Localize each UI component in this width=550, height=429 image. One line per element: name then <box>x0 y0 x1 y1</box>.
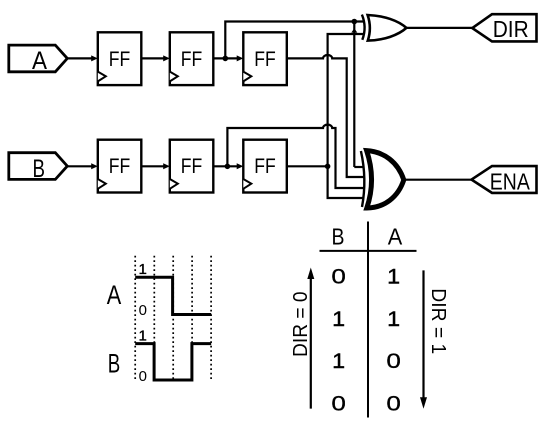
wire OR output to ENA tag <box>404 179 472 181</box>
svg-text:B: B <box>108 349 121 379</box>
svg-text:FF: FF <box>181 47 203 71</box>
svg-text:0: 0 <box>331 392 346 416</box>
wire A3: FF3 output with hop over B3 line, down to OR input <box>287 55 364 177</box>
arrowhead up on A2 drop <box>351 28 357 32</box>
timing diagram dotted grid line 4 <box>191 256 193 382</box>
svg-text:DIR: DIR <box>493 16 529 42</box>
svg-text:FF: FF <box>109 154 131 178</box>
flip-flop FF2 (A path) <box>170 32 214 85</box>
flip-flop FF5 (B path) <box>170 140 214 193</box>
svg-text:0: 0 <box>331 265 346 289</box>
wire A2 tap up to top rail <box>225 22 363 59</box>
waveform B <box>135 344 211 380</box>
wire A2 drop to OR input <box>353 22 355 168</box>
wire FF4 to FF5 (B path) <box>141 163 170 169</box>
svg-text:A: A <box>107 280 122 310</box>
flip-flop FF6 (B path) <box>243 140 286 193</box>
svg-text:FF: FF <box>181 154 203 178</box>
xor gate U1 (DIR) body <box>368 15 407 41</box>
wire B2 tap up and right, hop over B3 line, down to OR input <box>227 125 364 188</box>
node A2 top rail junction dot <box>352 19 358 25</box>
svg-text:1: 1 <box>387 307 400 331</box>
svg-text:1: 1 <box>332 307 345 331</box>
svg-text:FF: FF <box>109 47 131 71</box>
svg-text:1: 1 <box>332 349 345 373</box>
flip-flop FF1 (A path) <box>98 32 142 85</box>
truth table header rule <box>320 250 417 252</box>
svg-text:1: 1 <box>139 261 147 278</box>
svg-text:0: 0 <box>139 302 147 319</box>
wire B3 vertical line up to XOR and down to OR <box>328 34 364 198</box>
svg-text:A: A <box>32 47 47 75</box>
wire A2 drop continues right into OR top input <box>354 166 363 168</box>
input tag A <box>9 45 68 75</box>
svg-text:DIR = 0: DIR = 0 <box>290 291 312 357</box>
arrow DIR=0 up <box>307 268 314 409</box>
input tag B <box>9 153 68 183</box>
output tag DIR <box>472 14 536 42</box>
flip-flop FF3 (A path) <box>243 32 286 85</box>
waveform A <box>135 277 211 314</box>
wire B3: FF6 output to B3 vertical line <box>287 165 328 167</box>
truth table vertical divider <box>367 222 369 418</box>
xor gate U2 (ENA) body, thick <box>367 151 404 208</box>
svg-text:1: 1 <box>387 265 400 289</box>
svg-text:FF: FF <box>254 47 276 71</box>
arrow DIR=1 down <box>420 270 427 408</box>
svg-text:A: A <box>388 224 403 250</box>
svg-text:ENA: ENA <box>490 168 531 194</box>
timing diagram dotted grid line 1 <box>134 256 136 382</box>
wire FF2 to FF3 (A path) <box>213 55 243 61</box>
node A2 junction dot <box>223 56 229 62</box>
timing diagram dotted grid line 2 <box>153 256 155 382</box>
svg-text:B: B <box>32 155 45 183</box>
flip-flop FF4 (B path) <box>98 140 142 193</box>
svg-text:1: 1 <box>139 327 147 344</box>
output tag ENA <box>472 166 537 194</box>
wire XOR output to DIR tag <box>406 27 472 29</box>
wire FF1 to FF2 (A path) <box>141 55 170 61</box>
svg-text:0: 0 <box>139 368 147 385</box>
svg-text:B: B <box>332 224 345 250</box>
svg-text:DIR = 1: DIR = 1 <box>427 288 449 354</box>
wire B to FF4 <box>67 163 98 169</box>
node B2 junction dot <box>225 164 231 170</box>
svg-text:0: 0 <box>386 392 401 416</box>
svg-text:0: 0 <box>386 349 401 373</box>
xor gate U1 (DIR) input arc <box>362 15 365 40</box>
xor gate U2 (ENA) input arc <box>361 151 364 207</box>
timing diagram dotted grid line 5 <box>210 256 212 382</box>
svg-text:FF: FF <box>254 154 276 178</box>
wire FF5 to FF6 (B path) <box>213 163 243 169</box>
node B3 junction dot <box>325 164 331 170</box>
timing diagram dotted grid line 3 <box>172 256 174 382</box>
wire A to FF1 <box>67 55 98 61</box>
